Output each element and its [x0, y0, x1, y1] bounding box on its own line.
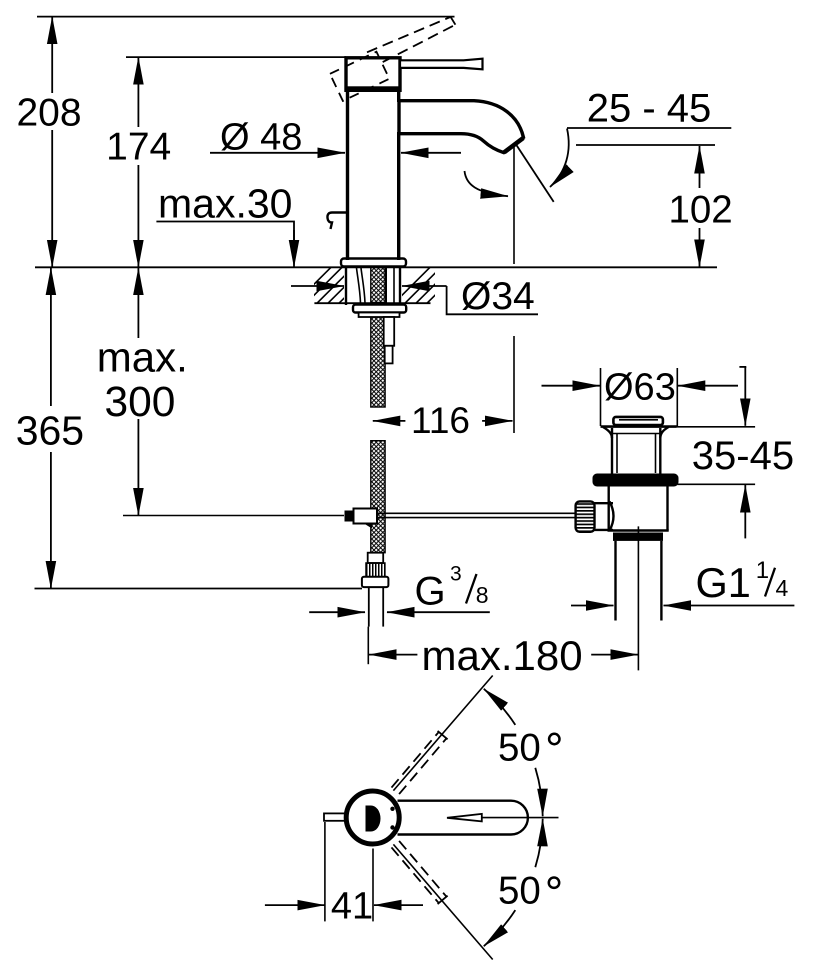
svg-text:174: 174 [106, 126, 171, 169]
svg-text:365: 365 [16, 408, 84, 454]
svg-text:max.30: max.30 [158, 180, 292, 226]
svg-text:G1: G1 [696, 559, 751, 606]
svg-text:1: 1 [756, 557, 769, 584]
svg-text:8: 8 [476, 582, 489, 608]
svg-text:300: 300 [105, 379, 176, 426]
svg-text:Ø63: Ø63 [604, 367, 676, 409]
svg-text:4: 4 [776, 575, 789, 601]
svg-text:max.180: max.180 [422, 632, 583, 679]
svg-text:50: 50 [498, 727, 541, 770]
svg-text:max.: max. [97, 334, 188, 381]
svg-text:50: 50 [498, 870, 541, 913]
svg-text:25 - 45: 25 - 45 [587, 87, 712, 131]
svg-text:35-45: 35-45 [692, 434, 794, 478]
svg-text:Ø34: Ø34 [461, 275, 535, 318]
svg-text:102: 102 [668, 188, 732, 231]
svg-text:208: 208 [16, 92, 81, 135]
svg-text:41: 41 [331, 886, 373, 928]
svg-text:3: 3 [450, 563, 462, 586]
svg-text:G: G [415, 570, 446, 614]
svg-text:116: 116 [411, 400, 470, 441]
